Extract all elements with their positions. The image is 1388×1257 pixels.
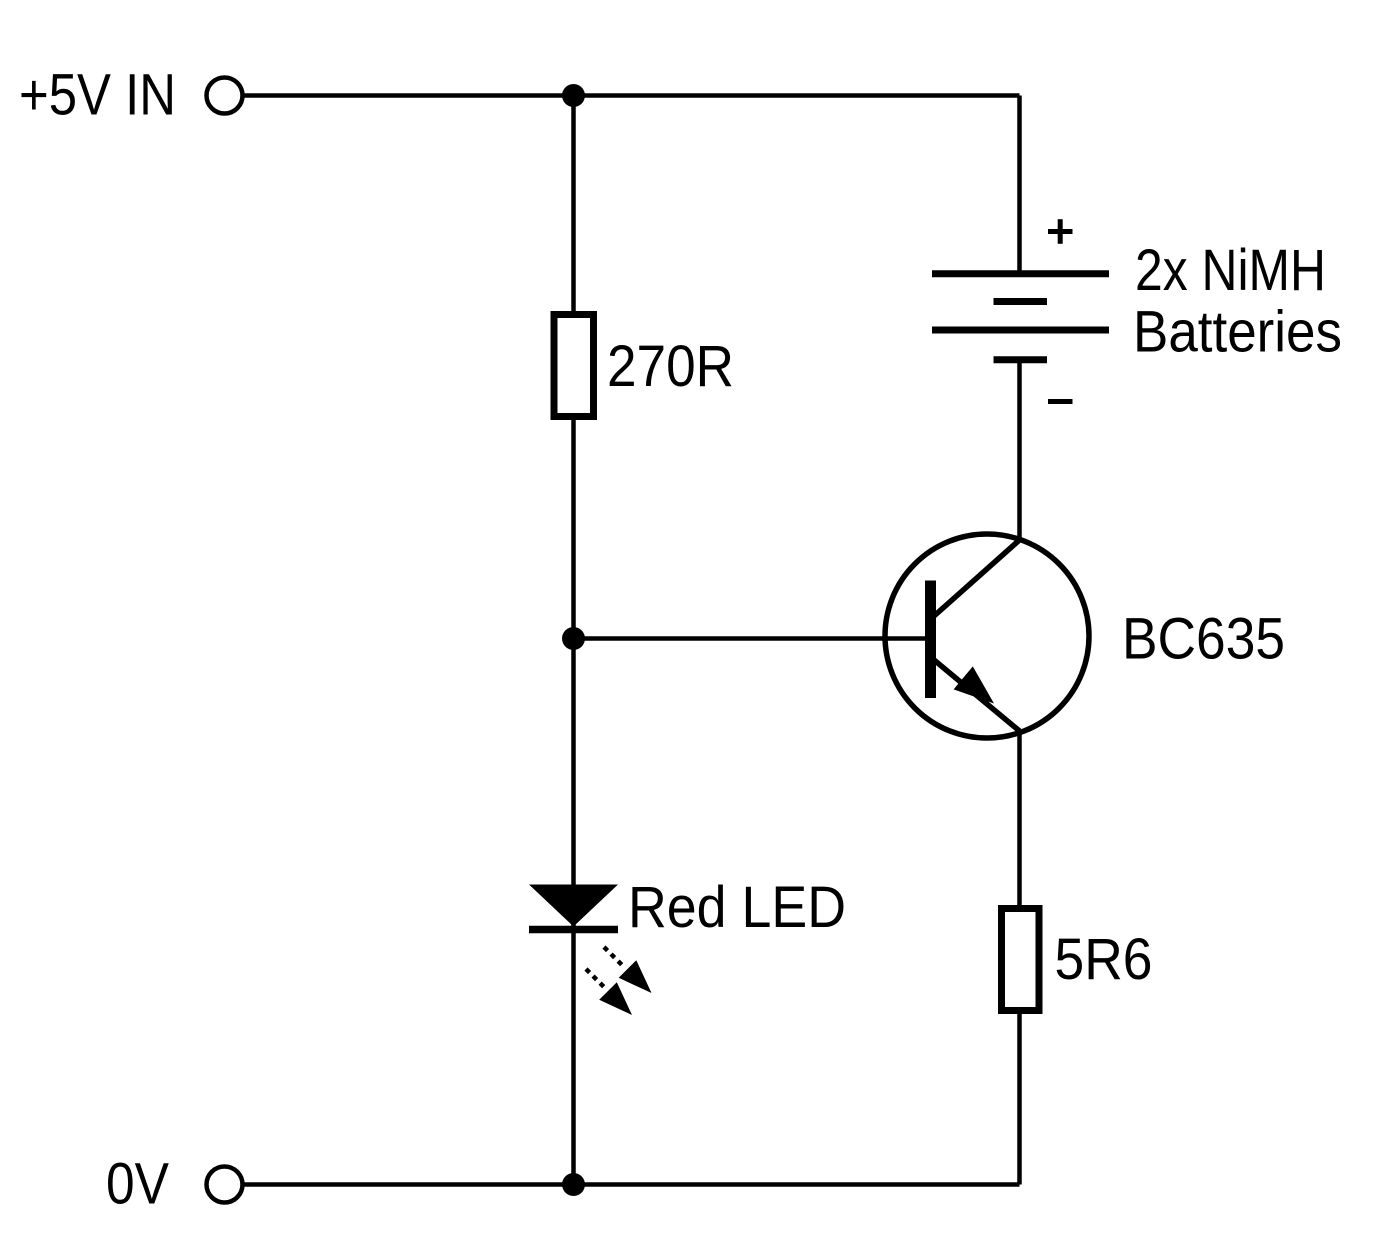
wire left vertical (571, 96, 576, 1185)
node junction base (562, 627, 585, 650)
terminal 0V (207, 1167, 243, 1203)
wire 5R6 to bottom (1017, 1013, 1022, 1185)
svg-text:2x NiMH: 2x NiMH (1135, 238, 1326, 303)
svg-text:+5V IN: +5V IN (19, 63, 176, 128)
node junction top (562, 84, 585, 107)
wire top horizontal (245, 93, 1020, 98)
wire emitter to 5R6 (1017, 733, 1022, 906)
transistor Q1 BC635 (885, 534, 1285, 738)
terminal +5V IN (207, 78, 243, 114)
battery BT1 2x NiMH (932, 219, 1342, 401)
svg-text:5R6: 5R6 (1055, 927, 1153, 992)
svg-text:BC635: BC635 (1122, 607, 1285, 672)
wire bottom horizontal (245, 1182, 1020, 1187)
wire base horizontal (574, 636, 926, 641)
svg-text:Batteries: Batteries (1133, 300, 1342, 365)
LED D1 Red LED (529, 875, 846, 1015)
svg-text:270R: 270R (607, 334, 734, 399)
resistor 5R6 (1002, 909, 1153, 1011)
resistor 270R (554, 315, 734, 417)
svg-text:Red LED: Red LED (628, 875, 846, 940)
svg-text:0V: 0V (106, 1152, 169, 1217)
node junction bottom (562, 1173, 585, 1196)
wire right vertical (top to battery) (1017, 96, 1022, 274)
wire battery to transistor collector (1017, 360, 1022, 542)
